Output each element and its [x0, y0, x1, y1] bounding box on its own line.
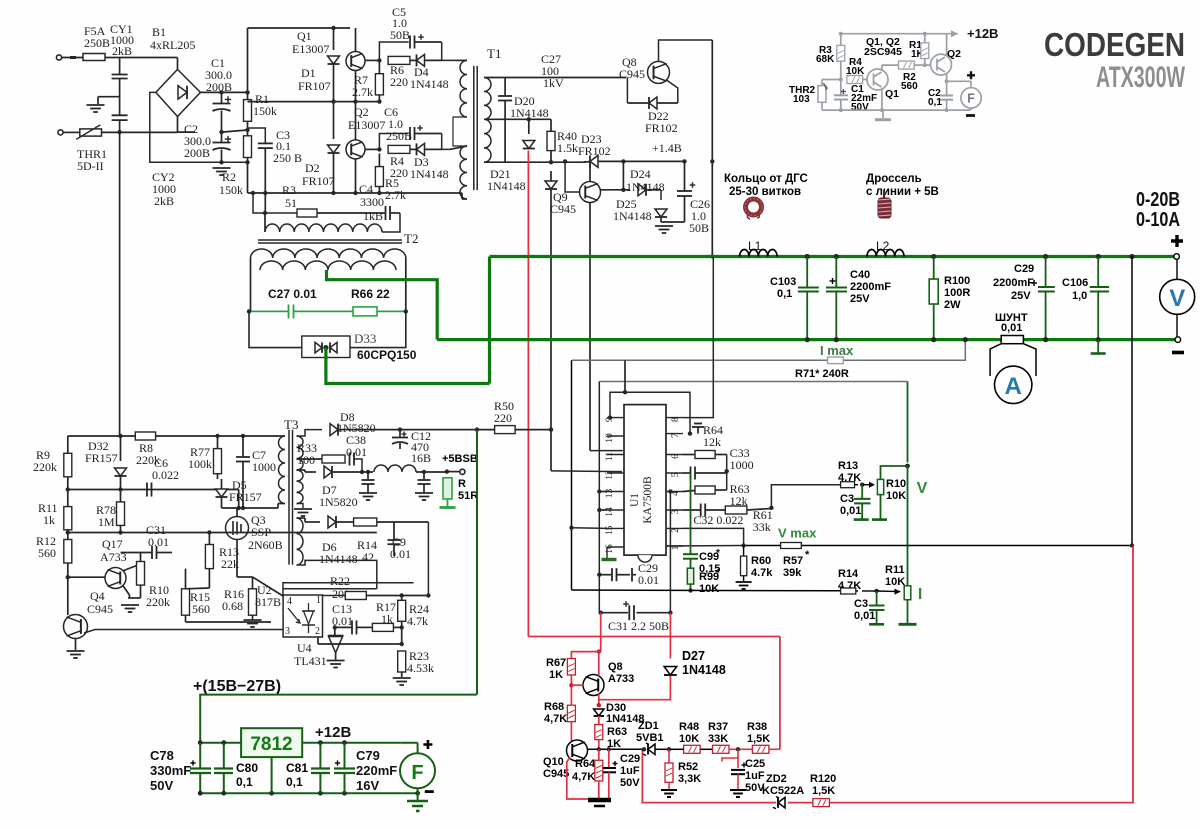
svg-text:Q10: Q10	[543, 756, 564, 768]
svg-text:16B: 16B	[411, 451, 431, 465]
svg-text:0-10А: 0-10А	[1136, 209, 1180, 231]
resistor R40 1.5k	[550, 119, 552, 131]
junction C1/C2 node with R1/R2 divider	[219, 130, 223, 134]
svg-text:C27 0.01: C27 0.01	[268, 287, 317, 301]
green ground under C3 lower	[869, 623, 884, 626]
wire Q8 emitter down	[667, 80, 678, 103]
diode D1 FR107	[331, 26, 335, 30]
wire T1 sec center tap	[484, 118, 551, 120]
svg-text:10K: 10K	[886, 490, 906, 502]
resistor R1 150k	[244, 100, 252, 122]
arrow to R11 pot wiper	[877, 590, 898, 593]
regulator 7812	[241, 728, 302, 757]
svg-text:R14: R14	[838, 568, 859, 580]
wire T1 sec bottom	[484, 161, 586, 163]
capacitor CY1	[119, 58, 121, 75]
svg-text:+12В: +12В	[315, 724, 351, 741]
wire pin11 from Q9	[590, 450, 623, 452]
green ground under C3	[854, 518, 869, 521]
wire T2 sec left terminal	[250, 258, 252, 311]
svg-text:C79: C79	[356, 748, 380, 763]
wire D33 output to plus rail	[326, 348, 490, 384]
svg-text:T1: T1	[487, 46, 501, 61]
capacitor C4 3300 1kB	[385, 206, 387, 220]
black wire D21 column down to R50 line	[550, 190, 552, 471]
diode D25 1N4148	[660, 190, 662, 200]
svg-text:R60: R60	[751, 555, 771, 567]
wire T3 bottom out	[297, 560, 377, 588]
svg-text:R68: R68	[544, 701, 564, 713]
svg-text:C31 2.2 50B: C31 2.2 50B	[608, 619, 669, 633]
fuse F5A	[83, 54, 105, 61]
diode D24 1N4148	[621, 159, 625, 163]
resistor R5 2.7k	[378, 153, 380, 166]
svg-text:220mF: 220mF	[356, 763, 397, 778]
pin 14	[607, 509, 624, 511]
svg-text:FR157: FR157	[85, 451, 118, 465]
IC U1 KA7500B body	[624, 405, 666, 555]
T1 secondary winding upper	[484, 78, 491, 120]
wire Q2 emitter to F meter	[946, 74, 948, 82]
svg-text:E13007: E13007	[292, 42, 329, 56]
capacitor on pin5	[690, 467, 692, 480]
capacitor C2 300.0 200B	[221, 132, 223, 142]
svg-text:3: 3	[285, 626, 290, 637]
svg-text:D33: D33	[354, 331, 376, 346]
svg-text:R120: R120	[810, 773, 836, 785]
svg-text:4.53k: 4.53k	[407, 661, 434, 675]
svg-text:R: R	[458, 478, 466, 490]
svg-text:42: 42	[362, 550, 374, 564]
svg-text:1N4148: 1N4148	[510, 106, 549, 120]
svg-text:FR107: FR107	[298, 79, 331, 93]
charger ground bar	[588, 798, 611, 803]
diode D4 1N4148	[410, 59, 417, 61]
transistor Q1	[355, 28, 357, 52]
ground under R16	[244, 619, 262, 621]
svg-text:ZD2: ZD2	[766, 773, 787, 785]
svg-text:1.5k: 1.5k	[557, 141, 578, 155]
T3 secondary lower	[297, 518, 304, 565]
diode D23 FR102	[584, 161, 590, 163]
T1 primary winding lower	[460, 146, 467, 199]
svg-text:220: 220	[494, 411, 512, 425]
svg-text:3: 3	[671, 509, 681, 514]
svg-text:100k: 100k	[188, 457, 212, 471]
svg-text:0.022: 0.022	[152, 468, 179, 482]
pin 5	[666, 472, 683, 474]
capacitor C26 1.0 50B	[682, 159, 686, 163]
svg-text:5: 5	[671, 472, 681, 477]
green ground rail under 7812	[200, 792, 417, 794]
svg-text:U4: U4	[297, 641, 312, 655]
transistor Q1 fan	[867, 69, 888, 90]
svg-text:R57: R57	[783, 555, 803, 567]
svg-text:1N4148: 1N4148	[682, 663, 726, 677]
svg-text:0,1: 0,1	[928, 97, 942, 108]
svg-text:51R: 51R	[458, 490, 478, 502]
arrow to R10 pot wiper	[862, 484, 873, 486]
svg-text:R22: R22	[330, 574, 350, 588]
node AC input L terminal	[56, 55, 61, 60]
wire Q17 emitter/collector	[123, 564, 141, 571]
svg-text:0,01: 0,01	[840, 505, 861, 517]
svg-text:I max: I max	[820, 343, 854, 358]
green output rail of 7812	[302, 742, 401, 744]
ammeter A	[990, 344, 1001, 376]
green ground under R10	[872, 518, 887, 521]
resistor R7 2.7k	[377, 58, 381, 62]
svg-text:*: *	[716, 548, 720, 559]
svg-text:220k: 220k	[33, 460, 57, 474]
pin 11	[607, 454, 624, 456]
svg-text:R52: R52	[678, 761, 698, 773]
wire Imax feed to elbow	[624, 360, 626, 392]
svg-text:25V: 25V	[1011, 290, 1031, 302]
svg-text:D2: D2	[305, 161, 320, 175]
svg-text:+1.4B: +1.4B	[652, 141, 682, 155]
svg-text:F: F	[411, 762, 423, 784]
svg-text:7812: 7812	[250, 734, 292, 755]
svg-text:10K: 10K	[699, 583, 719, 595]
red wire right side	[779, 637, 781, 750]
svg-text:C3: C3	[854, 598, 868, 610]
svg-text:10: 10	[605, 433, 615, 443]
plus output terminal	[1174, 254, 1180, 260]
svg-text:150k: 150k	[219, 183, 243, 197]
green wire +5BSB down to IC area	[476, 430, 478, 695]
transistor Q2	[355, 102, 357, 140]
svg-text:5VB1: 5VB1	[636, 732, 664, 744]
wire Q4 emitter line	[84, 630, 283, 634]
svg-text:Q2: Q2	[947, 48, 961, 60]
resistor R64 12k pin6	[695, 451, 715, 459]
capacitor C27 100 1kV	[504, 78, 506, 97]
wire R71 line to pots	[599, 381, 907, 383]
green output return rail	[437, 338, 1001, 341]
svg-text:R3: R3	[282, 183, 296, 197]
svg-text:10K: 10K	[885, 576, 905, 588]
svg-text:100R: 100R	[944, 287, 970, 299]
svg-text:1N4148: 1N4148	[319, 552, 358, 566]
svg-text:3300: 3300	[360, 195, 384, 209]
svg-text:C81: C81	[286, 761, 308, 775]
svg-text:FR157: FR157	[229, 490, 262, 504]
voltmeter V	[1160, 279, 1195, 314]
standby top rail	[68, 435, 280, 437]
svg-text:8: 8	[671, 417, 681, 422]
pin 4	[666, 491, 683, 493]
svg-text:220: 220	[390, 75, 408, 89]
svg-text:0,01: 0,01	[1001, 322, 1022, 334]
svg-text:+5BSB: +5BSB	[442, 453, 478, 465]
pin 16	[607, 546, 624, 548]
resistor R3	[297, 209, 317, 217]
T2 core	[258, 239, 402, 241]
wire pin2 jog	[683, 528, 744, 545]
svg-text:2200mF: 2200mF	[850, 281, 891, 293]
svg-text:B1: B1	[152, 25, 166, 39]
wire Q9 base jog	[563, 159, 567, 163]
pin 12	[607, 472, 624, 474]
svg-text:C945: C945	[619, 67, 645, 81]
diode D20 on center-tap	[527, 117, 531, 121]
svg-text:Q17: Q17	[102, 537, 123, 551]
svg-text:Кольцо от ДГС: Кольцо от ДГС	[724, 173, 808, 185]
svg-text:C945: C945	[543, 768, 569, 780]
svg-text:Q1: Q1	[885, 88, 899, 100]
svg-text:U1: U1	[629, 493, 641, 507]
green ground below C106	[1097, 340, 1099, 353]
svg-text:4,7K: 4,7K	[572, 771, 595, 783]
wire to Q8 base	[626, 78, 628, 104]
ground under Q4	[75, 639, 77, 650]
svg-text:ZD1: ZD1	[638, 720, 659, 732]
wire fuse to bridge	[120, 57, 178, 59]
pin 7	[666, 433, 683, 435]
resistor R6 220	[388, 56, 410, 64]
wire Q9 collector	[589, 161, 591, 181]
svg-text:0.01: 0.01	[346, 445, 367, 459]
svg-text:D27: D27	[682, 649, 705, 663]
svg-text:C29: C29	[1014, 263, 1034, 275]
resistor R8 220k	[135, 432, 155, 440]
svg-text:25V: 25V	[850, 293, 870, 305]
svg-text:33K: 33K	[708, 733, 728, 745]
svg-text:1uF: 1uF	[745, 770, 765, 782]
fan motor F	[967, 71, 975, 79]
wire column from IC to charger	[600, 613, 602, 652]
black vertical from plus rail to Vmax line	[1129, 254, 1134, 259]
svg-text:1M: 1M	[98, 515, 115, 529]
ground stub near CY1	[98, 96, 120, 98]
svg-text:560: 560	[38, 546, 56, 560]
svg-text:A733: A733	[608, 673, 634, 685]
svg-text:2W: 2W	[944, 299, 961, 311]
top rail of half-bridge	[248, 27, 351, 29]
wire Q10 emitter to ground	[567, 758, 589, 800]
wire Q2 collector	[946, 34, 948, 56]
wire pin9 to pin7 elbow	[608, 415, 612, 419]
wire Q8 block right vertical	[711, 40, 713, 257]
svg-text:1000: 1000	[252, 460, 276, 474]
svg-text:0.68: 0.68	[222, 599, 243, 613]
wire C6/D3 to T1 primary lower	[442, 134, 450, 150]
svg-text:2: 2	[671, 528, 681, 533]
wire T3 top to D8	[297, 430, 323, 436]
svg-text:10K: 10K	[679, 733, 699, 745]
svg-text:250B: 250B	[84, 36, 110, 50]
pin 8	[666, 417, 683, 419]
mid rail	[248, 101, 381, 103]
T1 secondary winding lower	[484, 119, 491, 162]
svg-text:V max: V max	[778, 526, 817, 541]
small cap at pin7	[697, 427, 699, 434]
wire snubber to Q3 drain	[222, 507, 279, 509]
wire T2 left to D33	[249, 311, 302, 347]
wire T2 sec right terminal	[405, 258, 407, 311]
green pot bus vertical	[907, 466, 909, 624]
svg-text:4xRL205: 4xRL205	[150, 38, 195, 52]
svg-text:R63: R63	[607, 726, 627, 738]
svg-text:3,3K: 3,3K	[678, 773, 701, 785]
resistor R2 150k	[244, 136, 252, 158]
svg-text:103: 103	[793, 94, 810, 105]
svg-text:+12В: +12В	[967, 26, 998, 41]
pin 6	[666, 454, 683, 456]
svg-text:I: I	[918, 586, 922, 603]
svg-text:1,5K: 1,5K	[812, 785, 835, 797]
svg-text:1K: 1K	[549, 669, 563, 681]
7812 ground pin	[271, 757, 273, 793]
wire pin12 from T1 aux	[551, 470, 622, 473]
red wire from D20 down to charger	[527, 151, 529, 637]
svg-text:60CPQ150: 60CPQ150	[357, 348, 417, 362]
svg-text:51: 51	[285, 196, 297, 210]
svg-text:1,0: 1,0	[1072, 290, 1087, 302]
svg-text:50B: 50B	[689, 221, 709, 235]
svg-text:2kB: 2kB	[154, 194, 174, 208]
wire U2 pin2 stub	[317, 637, 319, 644]
wire T1 sec top	[484, 77, 626, 79]
svg-text:R2: R2	[222, 170, 236, 184]
svg-text:0,1: 0,1	[777, 288, 792, 300]
svg-text:с линии + 5В: с линии + 5В	[866, 186, 939, 198]
svg-text:2.7k: 2.7k	[385, 188, 406, 202]
svg-text:1uF: 1uF	[620, 765, 640, 777]
capacitor CY2	[112, 114, 128, 116]
svg-text:FR102: FR102	[578, 144, 611, 158]
svg-text:T3: T3	[284, 417, 298, 432]
wire Q9 emitter down to IC pin11	[589, 203, 591, 451]
svg-text:Q4: Q4	[90, 589, 105, 603]
svg-text:16V: 16V	[356, 778, 379, 793]
ground under Q17	[128, 597, 141, 599]
svg-text:D1: D1	[301, 66, 316, 80]
pin 9	[607, 417, 624, 419]
green output plus rail	[490, 255, 1177, 258]
svg-text:50V: 50V	[150, 778, 173, 793]
diode D3 1N4148	[410, 148, 417, 150]
svg-text:E13007: E13007	[348, 118, 385, 132]
wire TL431 ref	[344, 643, 402, 645]
wire Q3 source down	[236, 540, 238, 578]
resistor R57* 39k	[781, 543, 802, 549]
svg-text:7: 7	[671, 433, 681, 438]
svg-text:1N4148: 1N4148	[410, 77, 449, 91]
fan circuit top rail +12V	[841, 33, 958, 35]
svg-text:V: V	[1169, 285, 1185, 312]
green ground under pot bus	[899, 623, 917, 626]
svg-text:R37: R37	[708, 721, 728, 733]
svg-text:R66 22: R66 22	[351, 287, 390, 301]
wire bridge plus to C1	[200, 91, 247, 93]
capacitor C1 300.0 200B	[219, 90, 223, 94]
+5VSB filter inductor	[374, 465, 416, 472]
pin 1	[666, 545, 683, 547]
svg-text:14: 14	[605, 507, 615, 517]
svg-text:1k: 1k	[43, 513, 55, 527]
svg-text:C4: C4	[359, 182, 373, 196]
svg-text:*: *	[716, 568, 720, 579]
fan ground symbol	[882, 110, 884, 118]
wire Q8 collector up	[598, 652, 600, 676]
svg-text:1kV: 1kV	[543, 76, 564, 90]
pins column down to C31	[598, 575, 600, 613]
wire Q8 emitter down	[598, 694, 600, 705]
wire bridge bottom to AC N	[177, 117, 179, 133]
diode D22 FR102	[627, 102, 649, 104]
diode D21	[549, 160, 553, 164]
thermistor THR1	[80, 129, 102, 136]
svg-text:4.7k: 4.7k	[751, 567, 773, 579]
pin 3	[666, 509, 683, 511]
wire I max sense line	[572, 359, 828, 361]
green ground under F	[417, 793, 419, 800]
svg-text:1N4148: 1N4148	[487, 179, 526, 193]
wire loop D6 to R22	[427, 522, 429, 596]
wire Q8 vertical to pin8	[683, 257, 713, 418]
ground of D25/C26	[660, 218, 662, 222]
wire R16 top to U2	[253, 577, 284, 596]
svg-text:T2: T2	[404, 231, 418, 246]
svg-text:220k: 220k	[146, 595, 170, 609]
svg-text:2SC945: 2SC945	[864, 46, 902, 58]
svg-text:Q1: Q1	[297, 29, 312, 43]
svg-text:6: 6	[671, 454, 681, 459]
wire Q1 emitter to ground rail	[881, 89, 883, 111]
svg-text:D24: D24	[630, 167, 651, 181]
wire pin4 down to C31	[668, 489, 672, 493]
svg-text:25-30 витков: 25-30 витков	[729, 186, 801, 198]
svg-text:560: 560	[901, 81, 918, 92]
rail mid standby	[68, 532, 377, 534]
svg-text:R100: R100	[944, 275, 970, 287]
svg-text:200B: 200B	[206, 80, 232, 94]
svg-text:33k: 33k	[753, 520, 771, 534]
transistor Q2 fan	[931, 54, 952, 75]
svg-text:KA7500B: KA7500B	[642, 476, 654, 524]
pin16 green ground	[606, 547, 608, 558]
svg-text:1kB: 1kB	[363, 209, 383, 223]
green input rail to 7812	[200, 742, 241, 744]
svg-text:C3: C3	[840, 493, 854, 505]
svg-text:817B: 817B	[255, 595, 281, 609]
wire R61 corner up to R13 line	[771, 485, 840, 508]
capacitor C3 0.1 250B	[248, 128, 266, 143]
svg-text:C78: C78	[150, 748, 174, 763]
wire bridge minus L-path	[150, 92, 248, 162]
svg-text:R67: R67	[546, 657, 566, 669]
bottom rail of half-bridge	[248, 192, 463, 194]
svg-text:4,7K: 4,7K	[544, 713, 567, 725]
svg-text:R64: R64	[575, 758, 596, 770]
svg-text:4: 4	[287, 596, 292, 607]
svg-text:560: 560	[192, 602, 210, 616]
TL431 regulator	[328, 635, 344, 637]
svg-text:2N60B: 2N60B	[248, 538, 283, 552]
svg-text:4.7k: 4.7k	[407, 614, 428, 628]
pin 2	[666, 527, 683, 529]
wire left column of primary half-bridge	[247, 28, 249, 100]
svg-text:1: 1	[316, 595, 321, 606]
minus output terminal	[1175, 337, 1181, 343]
svg-text:2.7k: 2.7k	[352, 85, 373, 99]
svg-text:Дроссель: Дроссель	[866, 173, 922, 185]
svg-text:R10: R10	[886, 478, 906, 490]
wire Q8 collector to top	[659, 40, 713, 61]
svg-text:C106: C106	[1062, 277, 1088, 289]
